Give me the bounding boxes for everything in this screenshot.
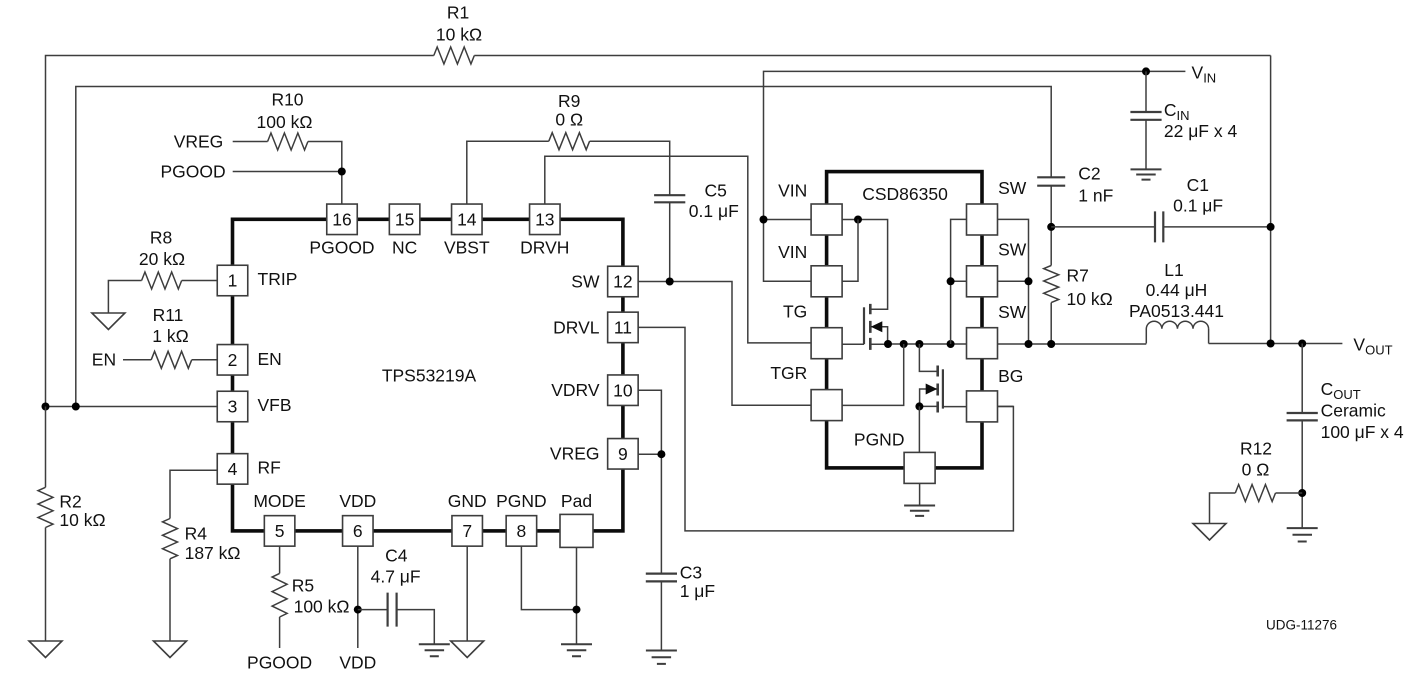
wire SW right bracket: [998, 219, 1029, 344]
svg-text:R7: R7: [1067, 266, 1089, 286]
node VFB-R2 junction: [42, 403, 50, 411]
wire pin14 VBST up: [467, 141, 549, 204]
pin 8 box: [506, 516, 537, 547]
pin BG box (right, y=406.4): [967, 391, 998, 422]
svg-text:VBST: VBST: [444, 238, 490, 258]
pin 14 box: [452, 204, 483, 235]
svg-text:20 kΩ: 20 kΩ: [139, 249, 185, 269]
capacitor C2: [1037, 177, 1065, 185]
svg-text:R8: R8: [150, 227, 172, 247]
node SW right bracket junction: [1025, 277, 1033, 285]
svg-text:L1: L1: [1164, 260, 1183, 280]
ground PGND (earth): [904, 506, 935, 516]
node R12-COUT junction: [1298, 489, 1306, 497]
svg-text:10 kΩ: 10 kΩ: [59, 510, 105, 530]
svg-text:100 kΩ: 100 kΩ: [257, 112, 313, 132]
wire R12 right lead: [1276, 492, 1303, 494]
wire L1 to VOUT: [1209, 343, 1343, 345]
wire pin4 RF to R4: [170, 470, 217, 518]
capacitor C4: [388, 593, 397, 627]
wire COUT to ground: [1301, 420, 1303, 528]
wire VDD to C4: [358, 609, 388, 611]
svg-text:1: 1: [228, 271, 238, 291]
pin 11 box: [608, 312, 639, 343]
pin 13 box: [530, 204, 561, 235]
svg-text:16: 16: [332, 210, 351, 230]
node VOUT-feedback junction: [1267, 340, 1275, 348]
svg-text:12: 12: [613, 272, 632, 292]
resistor R7: [1044, 266, 1059, 303]
ground Pad (earth): [561, 644, 592, 656]
wire TGR return: [842, 344, 904, 405]
svg-text:EN: EN: [92, 350, 116, 370]
node Q2 source junction: [915, 402, 923, 410]
node VFB-rail junction: [72, 403, 80, 411]
svg-text:R9: R9: [558, 91, 580, 111]
svg-text:PGOOD: PGOOD: [247, 652, 312, 672]
transistor Q1 source stub: [870, 343, 888, 345]
pin 6 box: [343, 516, 374, 547]
ground R2 (triangle): [29, 641, 62, 658]
ground R4 (triangle): [154, 641, 187, 658]
wire VIN2 bracket: [842, 220, 858, 282]
resistor R1: [434, 47, 475, 64]
svg-text:VIN: VIN: [778, 181, 807, 201]
transistor Q1 body stub with arrow: [870, 327, 887, 345]
node VDD-C4 junction: [354, 606, 362, 614]
svg-text:11: 11: [614, 318, 632, 338]
resistor R8: [142, 272, 182, 289]
svg-text:SW: SW: [998, 302, 1027, 322]
svg-text:Ceramic: Ceramic: [1321, 400, 1386, 420]
svg-text:9: 9: [618, 444, 628, 464]
pin 16 box: [327, 204, 358, 235]
resistor R12: [1235, 485, 1275, 502]
svg-text:VREG: VREG: [550, 444, 600, 464]
svg-text:R4: R4: [185, 524, 208, 544]
wire C2 to R7: [1050, 186, 1052, 266]
wire pin6 VDD down: [357, 546, 359, 648]
wire Q2 source to PGND pin: [918, 406, 920, 452]
resistor R4: [163, 519, 178, 559]
svg-text:UDG-11276: UDG-11276: [1266, 618, 1337, 633]
svg-text:PGND: PGND: [496, 491, 547, 511]
svg-text:100 μF x 4: 100 μF x 4: [1321, 422, 1404, 442]
pin VIN box (left, y=281.3): [811, 266, 842, 297]
resistor R5: [272, 573, 287, 617]
wire R10 to pin16: [308, 142, 342, 205]
svg-text:8: 8: [517, 521, 527, 541]
node SW left bracket junction: [947, 277, 955, 285]
transistor Q2 drain lead: [919, 344, 937, 371]
transistor Q2 channel: [936, 366, 939, 413]
pin TGR box (left, y=405.1): [811, 390, 842, 421]
transistor Q2 gate plate: [942, 369, 944, 408]
svg-text:R1: R1: [447, 3, 469, 23]
wire VREG to R10: [233, 141, 268, 143]
svg-text:TRIP: TRIP: [258, 269, 298, 289]
svg-text:TPS53219A: TPS53219A: [382, 366, 477, 386]
svg-text:7: 7: [462, 521, 472, 541]
ground C3 (earth): [646, 651, 677, 664]
svg-text:PGND: PGND: [854, 430, 905, 450]
wire VFB rail to pin3: [46, 406, 218, 408]
svg-text:100 kΩ: 100 kΩ: [294, 597, 350, 617]
wire PGOOD to pin16: [233, 171, 342, 173]
pin 7 box: [452, 516, 483, 547]
svg-text:14: 14: [457, 210, 477, 230]
svg-text:TGR: TGR: [770, 363, 807, 383]
transistor Q2 body stub with arrow: [920, 389, 938, 406]
svg-text:C5: C5: [705, 181, 727, 201]
transistor Q1 gate lead: [842, 343, 864, 345]
wire R9 to C5: [590, 141, 670, 195]
svg-text:R5: R5: [292, 576, 314, 596]
svg-text:CSD86350: CSD86350: [862, 184, 948, 204]
wire VFB rail (second, to C2): [76, 87, 1051, 407]
svg-text:PGOOD: PGOOD: [161, 162, 226, 182]
wire R7 to SW line: [1050, 303, 1052, 344]
resistor R10: [268, 133, 308, 150]
node VOUT-COUT junction: [1298, 340, 1306, 348]
svg-text:MODE: MODE: [253, 491, 306, 511]
svg-text:0 Ω: 0 Ω: [1242, 460, 1270, 480]
wire R4 to ground: [169, 559, 171, 641]
wire C5 to SW node: [669, 202, 671, 281]
wire BG to DRVL riser: [998, 405, 1013, 407]
node VIN1 junction: [760, 216, 768, 224]
svg-text:22 μF x 4: 22 μF x 4: [1164, 121, 1238, 141]
svg-text:0.1 μF: 0.1 μF: [689, 201, 739, 221]
svg-text:VREG: VREG: [174, 131, 224, 151]
pin 9 box: [608, 439, 639, 470]
svg-text:13: 13: [535, 210, 554, 230]
pin 2 box: [217, 345, 248, 376]
wire CIN top lead: [1145, 71, 1147, 112]
wire PGND pin to ground: [919, 483, 921, 505]
svg-text:5: 5: [275, 521, 285, 541]
svg-text:C1: C1: [1187, 175, 1209, 195]
pin TG box (left, y=343.2): [811, 328, 842, 359]
pin 4 box: [217, 454, 248, 485]
pin PGND box (bottom): [904, 452, 935, 483]
svg-text:RF: RF: [258, 458, 281, 478]
svg-text:10 kΩ: 10 kΩ: [1067, 289, 1113, 309]
svg-text:NC: NC: [392, 238, 417, 258]
svg-text:EN: EN: [258, 349, 282, 369]
transistor Q2 gate lead: [943, 406, 967, 408]
node Q1 source junction: [884, 340, 892, 348]
transistor Q2 source stub: [919, 405, 937, 407]
svg-text:4: 4: [228, 459, 238, 479]
svg-text:GND: GND: [448, 491, 487, 511]
capacitor C3: [646, 574, 677, 582]
node Q2 drain junction: [915, 340, 923, 348]
node VREG-VDRV junction: [657, 450, 665, 458]
wire R5 to PGOOD: [279, 617, 281, 648]
wire R12 to ground: [1210, 493, 1236, 524]
pin 15 box: [389, 204, 420, 235]
wire R8 to ground: [108, 281, 141, 314]
wire Pad down: [576, 547, 578, 644]
wire C1 right lead: [1163, 226, 1270, 228]
wire R11 to pin2: [192, 359, 218, 361]
wire R2 top lead: [45, 407, 47, 488]
pin 1 box: [217, 265, 248, 296]
wire right vertical of top rail to VOUT node: [1270, 56, 1272, 344]
svg-text:VFB: VFB: [258, 395, 292, 415]
wire C3 to ground: [660, 581, 662, 650]
resistor R11: [151, 351, 192, 368]
wire COUT top lead: [1301, 344, 1303, 414]
resistor R2: [38, 487, 53, 527]
node VIN-CIN junction: [1142, 67, 1150, 75]
pin 12 box: [608, 266, 639, 297]
wire internal SW node: [888, 343, 967, 345]
svg-text:10 kΩ: 10 kΩ: [436, 25, 482, 45]
capacitor C5: [654, 195, 685, 202]
svg-text:2: 2: [228, 350, 238, 370]
svg-text:C2: C2: [1078, 164, 1100, 184]
op-amp U1 TPS53219A outline: [233, 219, 623, 531]
inductor L1: [1146, 321, 1208, 343]
svg-text:VDD: VDD: [339, 491, 376, 511]
node SW right bracket bottom junction: [1025, 340, 1033, 348]
pin SW1 box (right, y=219.5): [967, 204, 998, 235]
svg-text:0 Ω: 0 Ω: [555, 109, 583, 129]
svg-text:R11: R11: [153, 305, 184, 325]
node PGOOD junction: [338, 168, 346, 176]
pin Pad box: [560, 514, 593, 547]
svg-text:6: 6: [353, 521, 363, 541]
wire VIN1 to FET drain: [842, 220, 887, 310]
pin 10 box: [608, 375, 639, 406]
svg-text:3: 3: [228, 397, 238, 417]
node C1-feedback junction: [1267, 223, 1275, 231]
node R7-SW junction: [1047, 340, 1055, 348]
wire CIN bottom lead: [1145, 120, 1147, 170]
pin 3 box: [217, 391, 248, 422]
svg-text:PA0513.441: PA0513.441: [1129, 301, 1224, 321]
wire pin7 GND down: [466, 546, 468, 641]
svg-text:R2: R2: [59, 491, 81, 511]
svg-text:15: 15: [395, 210, 414, 230]
ground R8 (triangle): [92, 313, 125, 330]
svg-text:VDD: VDD: [339, 652, 376, 672]
svg-text:SW: SW: [998, 240, 1027, 260]
svg-text:10: 10: [613, 380, 633, 400]
wire SW left bracket: [951, 219, 967, 344]
wire pin13 DRVH to TG: [545, 156, 811, 343]
capacitor COUT: [1287, 413, 1318, 420]
wire pin5 MODE to R5: [279, 546, 281, 573]
svg-text:DRVH: DRVH: [520, 238, 569, 258]
ground R12 (triangle): [1193, 524, 1226, 541]
pin SW3 box (right, y=343.2): [967, 328, 998, 359]
svg-text:1 μF: 1 μF: [680, 581, 715, 601]
wire EN to R11: [123, 359, 151, 361]
node SW-TGR junction: [900, 340, 908, 348]
wire VOUT feedback rail (top, via R1): [46, 56, 1271, 407]
capacitor CIN: [1130, 112, 1161, 120]
svg-text:VIN: VIN: [778, 242, 807, 262]
svg-text:SW: SW: [998, 178, 1027, 198]
transistor Q1 channel: [869, 304, 872, 350]
wire pin9 VREG to C3: [638, 454, 661, 573]
svg-text:C3: C3: [680, 563, 702, 583]
wire VIN rail to VIN pins: [764, 220, 812, 282]
wire pin11 DRVL to BG: [638, 327, 1013, 531]
wire VIN rail: [764, 71, 1186, 219]
resistor R9: [549, 133, 590, 150]
node VIN internal junction: [854, 216, 862, 224]
svg-text:VDRV: VDRV: [551, 380, 600, 400]
node Pad-PGND junction: [573, 606, 581, 614]
wire R8 to pin1: [182, 280, 218, 282]
pin 5 box: [264, 516, 295, 547]
wire C1 left lead: [1051, 226, 1155, 228]
wire pin8 PGND to pad: [521, 546, 576, 609]
node SW-C5 junction: [666, 278, 674, 286]
svg-text:Pad: Pad: [561, 491, 592, 511]
wire SW3 to output: [998, 343, 1146, 345]
ground C4 (earth): [419, 644, 450, 656]
svg-text:TG: TG: [783, 302, 807, 322]
svg-text:1 kΩ: 1 kΩ: [152, 326, 188, 346]
pin VIN box (left, y=219.5): [811, 204, 842, 235]
transistor block U2 CSD86350 outline: [827, 172, 982, 468]
ground GND pin7 (triangle): [451, 641, 484, 658]
svg-text:0.1 μF: 0.1 μF: [1173, 196, 1223, 216]
svg-text:187 kΩ: 187 kΩ: [185, 543, 241, 563]
svg-text:R12: R12: [1240, 439, 1272, 459]
wire C4 to ground: [397, 610, 435, 645]
svg-text:1 nF: 1 nF: [1078, 186, 1113, 206]
svg-text:C4: C4: [385, 545, 408, 565]
ground CIN (earth): [1131, 169, 1162, 179]
capacitor C1: [1155, 211, 1163, 242]
pin SW2 box (right, y=281.3): [967, 266, 998, 297]
node C1 tap junction: [1047, 223, 1055, 231]
wire R2 to ground: [45, 528, 47, 642]
svg-text:PGOOD: PGOOD: [309, 238, 374, 258]
svg-text:4.7 μF: 4.7 μF: [371, 566, 421, 586]
svg-text:R10: R10: [271, 89, 303, 109]
ground COUT (earth): [1287, 528, 1318, 541]
transistor Q1 gate plate: [863, 307, 865, 344]
wire pin12 SW to TGR: [638, 282, 811, 406]
wire pin10 VDRV down: [638, 390, 661, 454]
svg-text:0.44 μH: 0.44 μH: [1146, 280, 1208, 300]
svg-text:SW: SW: [571, 272, 600, 292]
node SW bracket junction: [947, 340, 955, 348]
svg-text:DRVL: DRVL: [553, 318, 600, 338]
svg-text:BG: BG: [998, 366, 1023, 386]
